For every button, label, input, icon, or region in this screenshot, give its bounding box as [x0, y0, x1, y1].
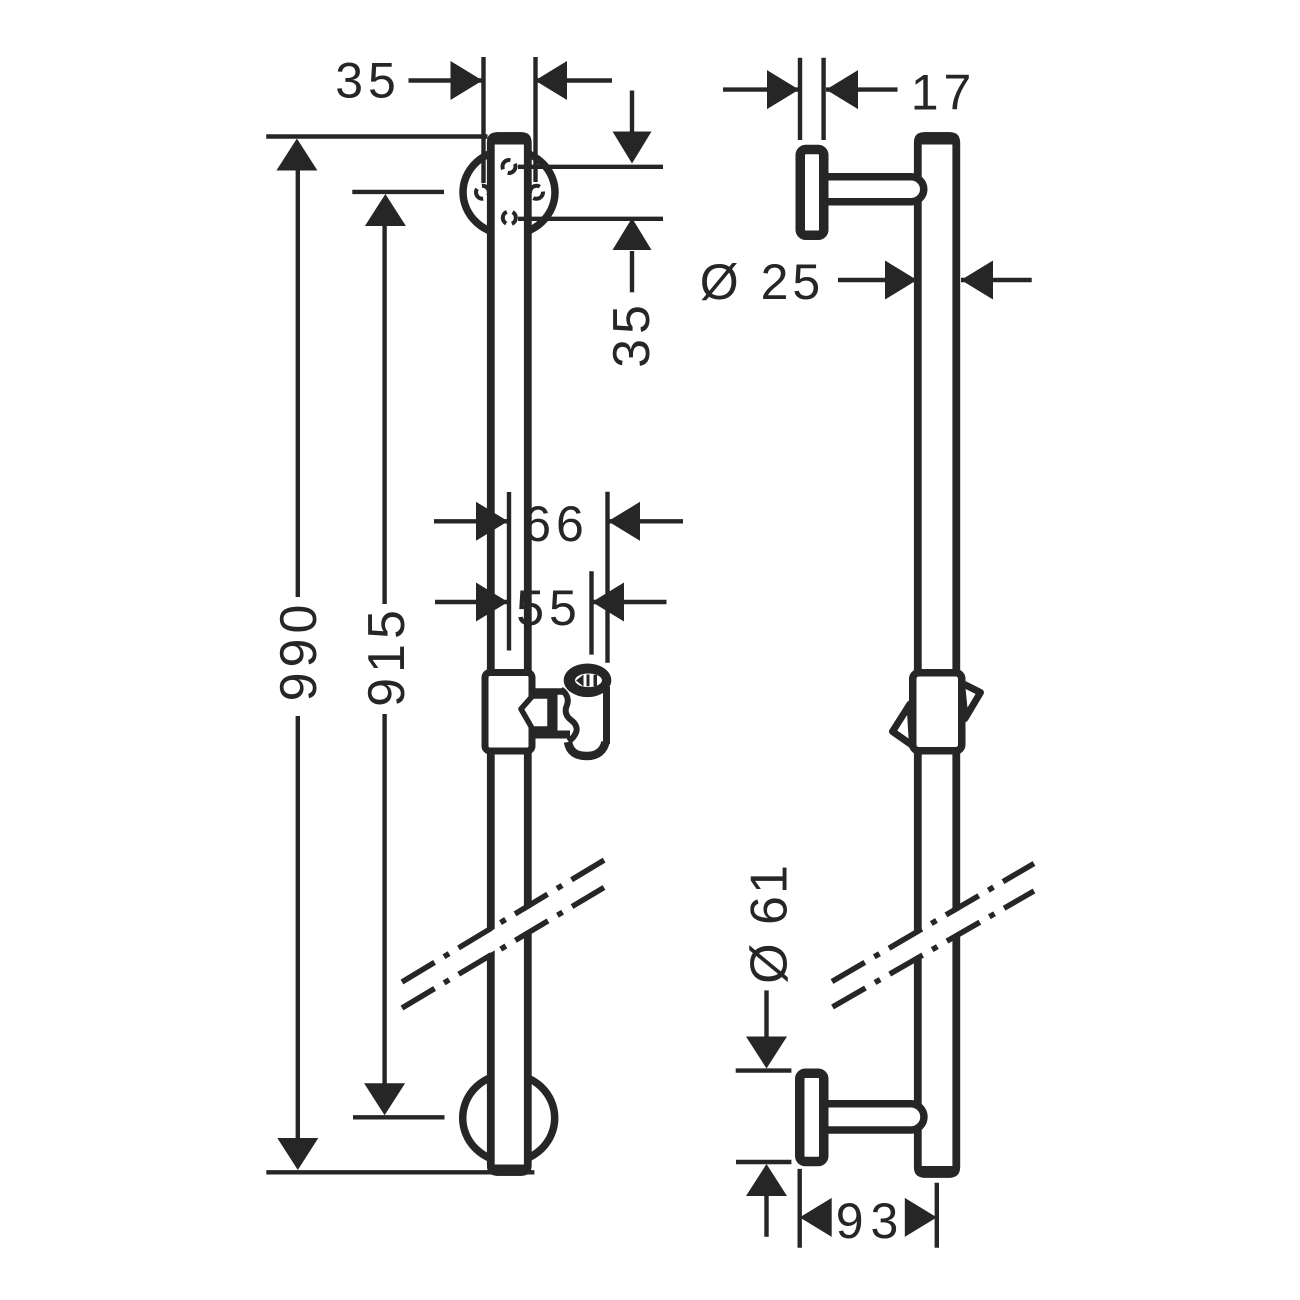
top wall plate	[800, 150, 824, 236]
svg-text:93: 93	[836, 1193, 906, 1249]
slide bar bottom cap	[487, 1165, 532, 1176]
dim 66: right line	[608, 519, 683, 523]
dim 915: top tick line	[352, 190, 444, 194]
holder cup right wall	[603, 687, 610, 744]
dim 35 right: lower vertical line	[630, 251, 634, 292]
dim 66: extension line left (bar axis)	[507, 492, 511, 651]
flange screw hole top (dashed)	[503, 160, 516, 173]
slide bar (side view)	[918, 136, 957, 1174]
dim 93: left arrow	[800, 1198, 832, 1237]
slider body (side view)	[913, 673, 962, 751]
bottom wall plate	[800, 1073, 824, 1161]
dim Ø61: down arrow	[746, 1037, 787, 1069]
dim Ø61: bottom tick line	[736, 1160, 791, 1164]
holder cup rim ellipse (filled)	[564, 664, 612, 698]
dim Ø25: right line	[961, 278, 1032, 282]
svg-text:Ø 61: Ø 61	[741, 863, 799, 984]
dim 66: extension line right	[605, 492, 609, 663]
holder cup inner wedge	[576, 675, 584, 687]
holder cup inner opening	[575, 674, 602, 688]
dim 17: right arrow	[826, 70, 858, 109]
dim 66: left line	[434, 519, 508, 523]
dim 990: top reference line	[266, 134, 487, 138]
dim 35 right: down arrow	[613, 132, 652, 164]
dim 17: right line	[826, 87, 898, 91]
slider clamp lever right (side view)	[962, 683, 981, 719]
holder top link bar	[533, 688, 563, 695]
svg-text:Ø 25: Ø 25	[700, 254, 824, 310]
bottom bracket arm	[822, 1104, 924, 1130]
flange screw hole left (dashed)	[476, 186, 489, 199]
slide bar top cap (side)	[914, 132, 960, 144]
dim Ø25: right arrow	[961, 261, 993, 300]
slider body (front view)	[485, 673, 532, 752]
dim 35 right: upper vertical line	[630, 91, 634, 141]
dim Ø25: left line	[838, 278, 917, 282]
svg-text:915: 915	[358, 605, 416, 707]
break band eraser (left view)	[400, 862, 608, 1005]
dim 17: extension line left	[798, 58, 802, 140]
dim 35 top: left arrow	[451, 61, 483, 100]
dim 55: right line	[592, 600, 667, 604]
break line upper (left view, dash-dot)	[402, 859, 606, 982]
dim Ø61: top tick line	[736, 1068, 792, 1072]
dim 66: right arrow	[608, 502, 640, 541]
dim 915: upper vertical line	[382, 224, 386, 604]
holder clamp pentagon	[521, 696, 550, 729]
dim 35 top: extension line left	[481, 57, 485, 183]
svg-text:66: 66	[523, 496, 589, 552]
holder cup left wavy contour	[561, 690, 577, 742]
holder clamp vertical bar	[550, 694, 558, 731]
dim 990: bottom reference line	[266, 1170, 534, 1174]
dim 915: bottom tick line	[353, 1115, 445, 1119]
top wall flange ellipse	[463, 150, 555, 235]
dim 55: left line	[435, 600, 508, 604]
dim Ø61: lower vertical line	[764, 1196, 768, 1237]
dim 93: right arrow	[905, 1198, 937, 1237]
slider clamp lever left (side view)	[893, 704, 913, 746]
slide bar top cap	[487, 132, 532, 144]
dim 35 top: left line	[409, 78, 483, 82]
svg-text:35: 35	[603, 300, 661, 368]
break line upper (side view, dash-dot)	[832, 864, 1034, 982]
dim 35 top: extension line right	[533, 57, 537, 182]
flange screw hole right (dashed)	[530, 186, 543, 199]
dim 35 right: up arrow	[613, 218, 652, 250]
dim 990: top arrow (up)	[276, 139, 317, 171]
holder cup inner slot 1	[587, 675, 590, 687]
dim 990: upper vertical line	[296, 168, 300, 597]
top bracket arm	[822, 177, 924, 202]
bottom wall flange ellipse	[463, 1074, 555, 1162]
holder cup bottom cap	[568, 742, 606, 756]
dim 35 top: right arrow	[535, 61, 567, 100]
break line lower (left view, dash-dot)	[402, 888, 604, 1009]
dim 35 right: lower tick line	[518, 217, 663, 221]
svg-text:990: 990	[270, 600, 328, 702]
svg-text:55: 55	[516, 580, 582, 636]
dim 17: left line	[723, 87, 799, 91]
dim 915: lower vertical line	[382, 714, 386, 1084]
dim 55: left arrow	[476, 583, 508, 622]
dim Ø25: left arrow	[885, 261, 917, 300]
holder cup inner slot 2	[594, 675, 598, 687]
dim 35 top: right line	[535, 78, 612, 82]
break line lower (side view, dash-dot)	[833, 891, 1035, 1007]
dim 93: extension line right	[935, 1183, 939, 1248]
dim 55: right arrow	[592, 583, 624, 622]
dim 93: extension line left	[798, 1169, 802, 1248]
dim 915: bottom arrow (down)	[364, 1083, 405, 1115]
dim 35 right: upper tick line	[518, 165, 663, 169]
dim 915: top arrow (up)	[365, 194, 406, 226]
dim 990: bottom arrow (down)	[277, 1138, 318, 1170]
slide bar bottom cap (side)	[914, 1166, 960, 1178]
slide bar (front view)	[491, 136, 528, 1172]
svg-text:35: 35	[335, 53, 401, 109]
break band eraser (side view)	[830, 866, 1036, 1005]
dim 66: left arrow	[476, 502, 508, 541]
dim Ø61: up arrow	[746, 1164, 787, 1196]
svg-text:17: 17	[911, 65, 977, 121]
dim 17: extension line right	[821, 58, 825, 140]
dim 17: left arrow	[767, 70, 799, 109]
dim Ø61: upper vertical line	[764, 990, 768, 1040]
dim 55: extension line right	[589, 571, 593, 654]
dim 990: lower vertical line	[296, 716, 300, 1139]
holder bottom link bar	[533, 731, 570, 739]
flange screw hole bottom (dashed)	[503, 211, 516, 224]
